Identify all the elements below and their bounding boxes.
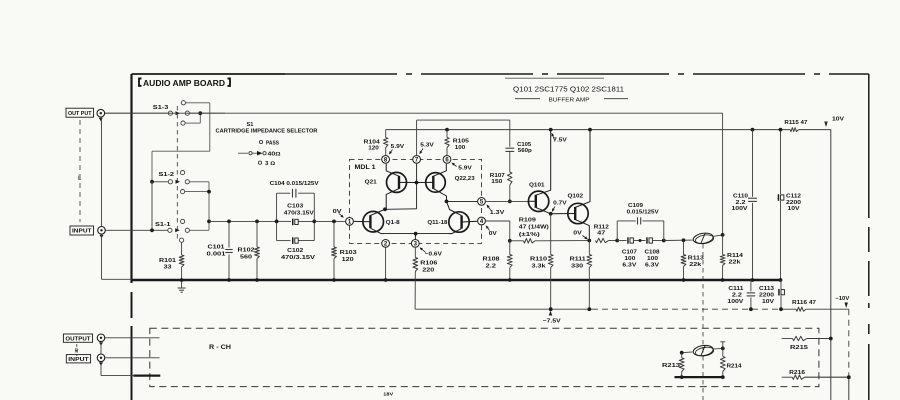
svg-text:100V: 100V (727, 299, 743, 305)
svg-text:2.2: 2.2 (736, 200, 746, 206)
resistor R213 (681, 353, 683, 358)
svg-text:120: 120 (342, 257, 354, 263)
capacitor C101 (227, 220, 231, 224)
svg-text:R106: R106 (420, 261, 438, 267)
connector jack J3 output R (97, 334, 105, 342)
svg-text:S1-3: S1-3 (153, 105, 169, 111)
svg-text:C101: C101 (208, 245, 226, 251)
svg-text:Q101 2SC1775 Q102 2SC1811: Q101 2SC1775 Q102 2SC1811 (513, 85, 624, 94)
pin 6 (443, 156, 451, 164)
svg-text:Q11-18: Q11-18 (427, 220, 448, 226)
svg-text:560p: 560p (518, 148, 532, 154)
capacitor C110 (751, 128, 755, 132)
wire output R stub (105, 337, 160, 339)
svg-text:R109: R109 (519, 217, 537, 223)
svg-text:C102: C102 (287, 248, 303, 254)
svg-text:120: 120 (368, 146, 379, 152)
junction Q21 emitter Q1-8 collector (383, 207, 387, 211)
svg-text:150: 150 (491, 179, 502, 185)
board border top (132, 73, 286, 75)
svg-text:100: 100 (624, 256, 635, 262)
svg-text:R102: R102 (238, 248, 255, 254)
svg-text:Q21: Q21 (365, 180, 378, 186)
wire to pin1 (314, 220, 345, 222)
junction jumper R right (721, 347, 725, 351)
svg-text:R116 47: R116 47 (792, 300, 816, 306)
capacitor C105 (505, 147, 514, 149)
pin 5 (478, 198, 486, 206)
svg-text:INPUT: INPUT (72, 229, 92, 235)
svg-text:Q22,23: Q22,23 (455, 176, 476, 182)
capacitor C113 (780, 280, 782, 289)
resistor R110 (550, 214, 552, 255)
svg-text:R115 47: R115 47 (784, 120, 807, 126)
svg-text:6.3V: 6.3V (622, 262, 636, 268)
svg-text:C110: C110 (733, 194, 748, 200)
junction jumper R left (680, 351, 684, 355)
svg-text:47: 47 (597, 230, 605, 236)
svg-text:S1-1: S1-1 (155, 222, 171, 228)
svg-text:0V: 0V (573, 231, 582, 237)
svg-text:40Ω: 40Ω (268, 152, 281, 158)
svg-text:0.001: 0.001 (207, 251, 227, 257)
pin 2 (382, 240, 390, 248)
capacitor C107 (617, 240, 626, 242)
svg-text:INPUT: INPUT (68, 357, 89, 363)
resistor R216 (782, 376, 793, 378)
gang dashed link jumpers (702, 244, 704, 400)
switch S1-1 bottom throw (180, 238, 184, 242)
svg-text:3 Ω: 3 Ω (265, 161, 275, 167)
svg-text:R: R (75, 348, 79, 354)
svg-text:560: 560 (240, 254, 252, 260)
switch gang dashed link S1 (176, 106, 178, 240)
svg-text:PASS: PASS (266, 141, 279, 147)
board border right (868, 74, 870, 218)
connector jack J4 input R (97, 354, 105, 362)
rail +7.5V (386, 129, 791, 131)
dashed link L (79, 120, 81, 222)
junction 0V node (587, 239, 591, 243)
svg-text:R108: R108 (483, 257, 501, 263)
svg-text:C108: C108 (645, 249, 661, 255)
capacitor C111 (750, 280, 752, 291)
svg-text:R215: R215 (790, 345, 809, 351)
wire S1 left vertical (151, 182, 153, 231)
svg-text:100: 100 (647, 256, 658, 262)
transistor Q102 (568, 203, 588, 223)
svg-text:C107: C107 (622, 249, 637, 255)
resistor R214 (722, 348, 724, 356)
svg-text:470/3.15V: 470/3.15V (284, 210, 314, 216)
svg-text:5.9V: 5.9V (458, 166, 472, 172)
capacitor C103 (277, 220, 291, 222)
transistor Q11-18 (449, 212, 469, 232)
junction S1-2 throws (207, 190, 211, 194)
connector jack J1 output L (97, 109, 105, 117)
jumper wire L (oval) (693, 232, 715, 245)
wire pin4 to R109 (486, 220, 510, 222)
wire R ground stub (133, 375, 160, 377)
svg-text:100V: 100V (732, 206, 748, 212)
transistor Q1-8 (363, 211, 384, 232)
junction C109 right (662, 239, 666, 243)
svg-text:C109: C109 (628, 203, 644, 209)
ground bus (132, 279, 782, 282)
junction Q101 emitter node (549, 212, 553, 216)
R channel ground segment (675, 376, 723, 378)
svg-text:0.7V: 0.7V (553, 200, 567, 206)
junction Q22 emitter Q11-18 collector (445, 200, 449, 204)
junction S1-3 out (198, 111, 202, 115)
wire output bus (105, 112, 723, 114)
junction bases pin7 (415, 181, 419, 185)
capacitor C108 (646, 237, 648, 243)
junction S1-2 left (150, 180, 154, 184)
junction R115 left (779, 128, 782, 131)
junction output node (721, 233, 725, 237)
junction S1-1 left (150, 228, 154, 232)
dashed link R (76, 344, 78, 356)
resistor R111 (588, 241, 590, 255)
svg-text:6.3V: 6.3V (645, 262, 659, 268)
label INPUT L (70, 226, 94, 235)
junction R113 (682, 238, 686, 242)
svg-text:AUDIO AMP BOARD: AUDIO AMP BOARD (143, 78, 225, 88)
label INPUT R (66, 355, 90, 363)
legend 40 ohm (238, 152, 248, 154)
junction Q101 collector rail (549, 128, 553, 132)
junction R107 pin5 wire (508, 200, 512, 204)
pin 7 (413, 156, 421, 164)
svg-text:Q102: Q102 (568, 194, 584, 200)
svg-text:7.5V: 7.5V (553, 138, 567, 144)
resistor R116 (796, 307, 806, 311)
resistor R109 (508, 239, 512, 243)
svg-text:220: 220 (422, 267, 434, 273)
svg-text:MDL 1: MDL 1 (355, 165, 377, 171)
svg-text:S1-2: S1-2 (159, 172, 175, 178)
svg-text:2.2: 2.2 (486, 263, 497, 269)
junction R110 rail (549, 307, 553, 311)
svg-text:2200: 2200 (759, 292, 774, 298)
rail -7.5V (415, 308, 592, 310)
resistor R112 (596, 238, 609, 242)
board border left (130, 74, 132, 283)
junction main node after S1 (207, 220, 211, 224)
svg-text:10V: 10V (762, 299, 774, 305)
svg-text:2.2: 2.2 (732, 292, 742, 298)
resistor R107 (508, 172, 512, 185)
svg-text:BUFFER AMP: BUFFER AMP (549, 98, 590, 104)
svg-text:0.015/125V: 0.015/125V (627, 209, 659, 215)
svg-text:C112: C112 (786, 194, 801, 200)
resistor R113 (683, 240, 685, 254)
switch S1-1 top throw (181, 219, 185, 223)
transistor Q101 (528, 191, 548, 211)
svg-text:R104: R104 (364, 139, 381, 145)
svg-text:S1: S1 (247, 122, 254, 128)
svg-text:330: 330 (571, 263, 583, 269)
resistor R108 (509, 241, 511, 255)
svg-text:OUTPUT: OUTPUT (65, 336, 91, 342)
wire input L to board (106, 229, 168, 231)
wire input R stub (105, 357, 160, 359)
svg-text:0V: 0V (333, 209, 342, 215)
wire -10V feed down (848, 309, 850, 377)
svg-text:C111: C111 (728, 286, 744, 292)
pin 4 (478, 217, 486, 225)
svg-text:−10V: −10V (835, 296, 849, 302)
module MDL1 box (350, 159, 482, 243)
svg-text:(±1%): (±1%) (519, 232, 540, 238)
junction Q102 collector rail (588, 128, 592, 132)
wire L shield chain (101, 117, 103, 226)
svg-text:−7.5V: −7.5V (543, 319, 561, 325)
svg-text:R213: R213 (662, 363, 681, 369)
svg-text:R112: R112 (594, 224, 609, 230)
junction R101 ground (180, 278, 184, 282)
svg-text:100: 100 (455, 145, 466, 151)
wire R jumper stub up (722, 342, 724, 349)
wire pin5 internal (447, 200, 478, 202)
ground symbol (181, 280, 183, 288)
svg-text:2200: 2200 (786, 200, 801, 206)
switch S1-3 bottom throw (181, 121, 185, 125)
svg-text:33: 33 (164, 264, 173, 270)
wire main signal (209, 220, 277, 222)
resistor R103 (332, 220, 336, 224)
wire emitters rail (384, 233, 452, 235)
wire pin5 to Q101 base (486, 200, 529, 202)
switch S1-2 top throw (181, 171, 185, 175)
svg-text:3.3k: 3.3k (532, 263, 547, 269)
capacitor block frame (276, 193, 278, 240)
svg-text:C113: C113 (759, 286, 775, 292)
transistor Q22,23 (426, 173, 446, 193)
svg-text:C103: C103 (287, 204, 304, 210)
wire pin2 to ground bus (385, 247, 387, 280)
svg-text:1.3V: 1.3V (490, 210, 505, 216)
svg-text:R111: R111 (570, 257, 587, 263)
svg-text:R101: R101 (159, 258, 177, 264)
svg-text:10V: 10V (788, 206, 800, 212)
svg-text:22k: 22k (729, 260, 742, 266)
svg-text:Q101: Q101 (529, 182, 545, 188)
wire R shield chain (100, 342, 102, 354)
connector jack J2 input L (98, 227, 106, 235)
junction block right (312, 220, 316, 224)
resistor R215 (782, 338, 793, 340)
svg-text:Q1-8: Q1-8 (386, 220, 401, 226)
svg-text:R105: R105 (453, 139, 470, 145)
pin 1 (346, 218, 354, 226)
R-CH box (150, 328, 819, 386)
svg-text:R103: R103 (340, 250, 358, 256)
resistor R104 (385, 130, 387, 138)
svg-text:22k: 22k (689, 262, 702, 268)
pin 3 (411, 240, 419, 248)
transistor Q21 (387, 172, 407, 192)
jumper wire R (oval) (682, 351, 693, 354)
svg-text:R214: R214 (727, 363, 743, 369)
board border second scan line (505, 77, 604, 79)
capacitor C102 (292, 237, 294, 244)
svg-text:5.3V: 5.3V (420, 143, 434, 149)
resistor R115 (790, 128, 798, 132)
legend 3 ohm (258, 161, 261, 164)
junction C109 left (615, 239, 619, 243)
capacitor C109 bypass loop (616, 221, 618, 241)
svg-text:CARTRIDGE IMPEDANCE SELECTOR: CARTRIDGE IMPEDANCE SELECTOR (216, 128, 318, 134)
svg-text:R113: R113 (688, 256, 705, 262)
svg-text:5.9V: 5.9V (391, 144, 405, 150)
label OUTPUT R (63, 334, 92, 342)
junction C107 C108 (634, 240, 646, 242)
label OUTPUT L (66, 108, 94, 117)
switch S1-3 top throw (181, 101, 185, 105)
switch S1-2 mid throw (181, 190, 185, 194)
svg-text:0V: 0V (489, 231, 497, 237)
svg-text:OUT PUT: OUT PUT (68, 111, 92, 117)
svg-text:R114: R114 (727, 253, 744, 259)
resistor R102 (255, 220, 259, 224)
resistor R101 (181, 242, 183, 255)
svg-text:470/3.15V: 470/3.15V (281, 255, 315, 261)
wire pin7 bias vertical (416, 164, 418, 209)
svg-text:18V: 18V (383, 391, 394, 397)
svg-text:R - CH: R - CH (209, 344, 231, 351)
svg-text:10V: 10V (832, 116, 845, 122)
resistor R106 (414, 248, 416, 258)
junction block left (275, 220, 279, 224)
junction R111 rail (587, 307, 591, 311)
wire +10V feed down (830, 130, 832, 400)
resistor R114 (722, 235, 724, 255)
resistor R105 (445, 128, 449, 132)
svg-text:R110: R110 (530, 257, 547, 263)
pin 8 (382, 156, 390, 164)
svg-text:−0.6V: −0.6V (425, 252, 442, 258)
wire to R113 node (664, 239, 693, 241)
capacitor C112 (779, 128, 783, 132)
wire pin7 to C105 top (417, 119, 510, 121)
capacitor C104 (292, 189, 294, 198)
wire output L to board (105, 112, 169, 114)
svg-text:C104 0.015/125V: C104 0.015/125V (270, 181, 319, 187)
svg-text:R216: R216 (789, 370, 806, 376)
svg-text:47 (1/4W): 47 (1/4W) (519, 225, 549, 231)
legend PASS (259, 140, 262, 143)
